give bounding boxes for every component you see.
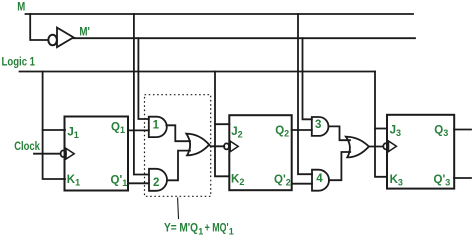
svg-text:1: 1 <box>198 226 203 236</box>
svg-text:+ MQ': + MQ' <box>205 222 229 234</box>
node Y equation label part 1 <box>164 222 198 234</box>
wire OR2 output to FF3 clock <box>369 146 383 148</box>
wire M' vertical to AND3 <box>303 38 312 119</box>
svg-text:K2: K2 <box>231 174 244 188</box>
svg-text:4: 4 <box>316 173 323 185</box>
pin 3 label <box>315 119 321 131</box>
inverter U1 bubble <box>48 35 57 46</box>
svg-text:K1: K1 <box>67 174 80 188</box>
wire Q1 to AND1 <box>128 129 149 131</box>
node M label <box>17 1 25 13</box>
pin Q'1 label <box>111 174 128 188</box>
pin J2 label <box>231 126 242 140</box>
and-gate 3 <box>312 117 329 136</box>
wire M vertical to AND4 <box>298 14 312 174</box>
flip-flop U3 box <box>387 115 454 189</box>
svg-text:J3: J3 <box>390 125 401 139</box>
svg-text:3: 3 <box>315 119 321 131</box>
wire M bus line <box>26 13 414 15</box>
and-gate 4 <box>312 170 329 191</box>
and-gate 1 <box>149 117 167 137</box>
inverter U1 triangle <box>57 28 74 48</box>
svg-text:Clock: Clock <box>14 141 40 153</box>
wire AND1 output to OR1 <box>166 125 190 141</box>
node Y equation label part 2 <box>205 222 229 234</box>
wire AND2 output to OR1 <box>168 151 191 181</box>
clock bubble FF2 <box>224 143 229 149</box>
wire M vertical to AND2 <box>134 14 149 175</box>
svg-text:Q'3: Q'3 <box>434 174 451 188</box>
node Y equation subscript 1 <box>198 226 203 236</box>
wire M to inverter input <box>30 14 48 40</box>
svg-text:Q3: Q3 <box>434 125 448 139</box>
svg-text:M': M' <box>79 26 90 38</box>
node Logic 1 label <box>2 56 36 68</box>
pin Q'2 label <box>274 174 291 188</box>
pin Q2 label <box>275 125 289 139</box>
wire Logic1 drop to J2/K2 <box>215 72 229 177</box>
svg-text:J2: J2 <box>231 126 242 140</box>
wire AND4 output to OR2 <box>329 152 350 180</box>
flip-flop U1 box <box>65 117 129 191</box>
wire Logic 1 bus line <box>20 71 376 73</box>
wire Q3 output <box>454 129 471 131</box>
and-gate 2 <box>149 169 167 191</box>
wire Clock input <box>34 153 60 155</box>
pin 1 label <box>153 120 160 132</box>
wire Logic1 drop to J1/K1 <box>43 72 65 180</box>
clock wedge FF2 <box>230 141 238 152</box>
wire Q'2 to AND4 <box>292 183 312 185</box>
wire Q'1 to AND2 <box>128 182 149 184</box>
dash connector to Y label <box>177 198 180 219</box>
flip-flop U2 box <box>229 115 291 190</box>
node Clock label <box>14 141 40 153</box>
node M' label <box>79 26 90 38</box>
wire M' vertical to AND1 <box>138 38 148 119</box>
pin Q3 label <box>434 125 448 139</box>
node Y equation subscript 2 <box>229 226 234 236</box>
pin J3 label <box>390 125 401 139</box>
svg-text:Logic 1: Logic 1 <box>2 56 36 68</box>
svg-text:J1: J1 <box>67 127 78 141</box>
pin K1 label <box>67 174 80 188</box>
pin J1 label <box>67 127 78 141</box>
svg-text:2: 2 <box>153 177 159 189</box>
dotted box Y group <box>145 95 211 197</box>
or-gate OR2 <box>346 137 369 158</box>
pin K3 label <box>390 174 403 188</box>
svg-text:Q1: Q1 <box>111 121 125 135</box>
clock bubble FF3 <box>383 143 388 149</box>
clock wedge FF3 <box>389 141 397 152</box>
svg-text:Y= M'Q: Y= M'Q <box>164 222 198 234</box>
pin 4 label <box>316 173 323 185</box>
wire M' bus line <box>74 37 416 39</box>
wire Logic1 drop to J3/K3 <box>375 72 387 177</box>
wire Q2 to AND3 <box>292 129 312 131</box>
pin Q1 label <box>111 121 125 135</box>
svg-text:1: 1 <box>153 120 160 132</box>
svg-text:K3: K3 <box>390 174 403 188</box>
pin 2 label <box>153 177 159 189</box>
clock wedge FF1 <box>66 148 74 159</box>
pin K2 label <box>231 174 244 188</box>
wire J3 branch <box>375 128 387 130</box>
svg-text:Q'2: Q'2 <box>274 174 291 188</box>
svg-text:Q'1: Q'1 <box>111 174 128 188</box>
wire J1 branch <box>43 129 65 131</box>
wire Q'3 output <box>454 177 471 179</box>
svg-text:Q2: Q2 <box>275 125 289 139</box>
svg-text:M: M <box>17 1 25 13</box>
clock bubble FF1 <box>61 150 66 157</box>
wire AND3 output to OR2 <box>329 126 351 140</box>
wire J2 branch <box>215 123 229 125</box>
or-gate OR1 <box>186 134 209 156</box>
svg-text:1: 1 <box>229 226 234 236</box>
wire OR1 output to FF2 clock <box>209 145 224 147</box>
pin Q'3 label <box>434 174 451 188</box>
